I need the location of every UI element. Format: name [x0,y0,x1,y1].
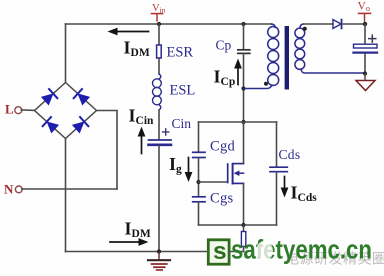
svg-text:s: s [213,238,227,265]
arrow ICds pointing down [281,177,289,198]
capacitor Cgd [193,152,205,157]
capacitor Cgs [193,197,205,202]
label ICin [129,106,155,128]
label IDM bottom [125,219,151,241]
arrow ICp pointing up [234,59,242,85]
label IDM top [124,38,150,60]
node secondary return junction dot [363,71,367,75]
wire source to sense resistor [243,225,245,232]
wire N riser to bridge right vertex [97,111,118,190]
wire diode to Vo node [342,23,366,25]
resistor ESR [157,45,162,58]
wire Cgs to bottom rail [198,202,200,225]
wire sense resistor to bottom rail [243,247,245,252]
watermark logo box [208,238,229,265]
capacitor Cp [238,50,250,54]
wire N horizontal run [22,188,117,190]
svg-text:L: L [5,102,14,117]
node drain rail junction dot [241,120,245,124]
label Vin [152,3,166,21]
terminal N circle [15,186,22,193]
wire stub to output ground [364,74,366,81]
svg-text:ICds: ICds [291,183,318,205]
transformer core bar [285,26,289,90]
ground output (triangle) [356,81,375,91]
wire Cin to bottom rail [158,146,160,252]
transformer primary winding [244,24,279,89]
label Cin [172,116,192,131]
wire ESR to ESL [158,58,160,74]
svg-text:ICin: ICin [129,106,155,128]
label ESL [170,83,196,99]
arrow ICin pointing up [138,127,146,154]
wire L terminal to bridge left vertex [21,109,34,112]
diode D2 top-right of bridge [74,89,90,105]
terminal L circle [15,107,22,114]
transistor Q1 MOSFET [228,164,244,184]
svg-text:IDM: IDM [124,38,150,60]
transformer primary polarity dot [264,82,268,86]
watermark white cloud [256,241,273,261]
capacitor Cds [270,167,287,172]
node Vin junction dot [157,22,161,26]
arrow Ig pointing down [185,158,193,183]
svg-text:safetyemc.cn: safetyemc.cn [231,235,372,265]
wire Vin branch upper segment [158,24,160,45]
label L [5,102,14,117]
transformer secondary polarity dot [303,27,307,31]
label Vo [358,1,371,22]
label N [4,182,14,197]
svg-text:ESR: ESR [167,45,194,61]
wire left branch upper (to Cgd) [198,122,200,152]
arrow IDM bottom pointing right [110,238,149,246]
svg-text:Cp: Cp [216,38,232,53]
wire source vertical [243,183,245,225]
node Vo junction dot [363,22,367,26]
bridge rectifier diamond [35,83,97,139]
svg-text:Vo: Vo [358,1,370,14]
label Cgs [210,191,234,207]
node Cp top junction dot [241,22,245,26]
svg-text:Cin: Cin [172,116,192,131]
wire Cp lower to primary-bottom junction [243,54,245,122]
svg-text:Ig: Ig [169,154,182,176]
diode D3 bottom-left of bridge [43,117,59,133]
watermark gray text [285,251,384,267]
svg-text:IDM: IDM [125,219,151,241]
svg-text:Cds: Cds [279,147,301,162]
label Cin plus sign [163,129,169,135]
node bottom ground junction dot [157,249,161,253]
wire output cap to secondary return [364,54,366,74]
wire Cp branch upper [243,24,245,49]
svg-text:Cgd: Cgd [210,139,236,155]
transformer secondary winding [295,24,365,73]
label Cgd [210,139,236,155]
wire Vo node down to output cap [364,24,366,44]
wire Cds to bottom rail [276,172,278,225]
label Cds [279,147,301,162]
diode output rectifier [333,20,342,29]
watermark safetyemc.cn [231,235,372,265]
label ICp [214,67,236,89]
svg-text:N: N [4,182,14,197]
ground main (hatched) [148,252,170,271]
node source junction dot [241,223,245,227]
arrow IDM top pointing left [108,28,149,36]
diode D4 bottom-right of bridge [72,117,88,133]
wire gate lead [199,181,228,183]
wire secondary top lead to diode [304,23,334,25]
label Ig [169,154,182,176]
label ICds [291,183,318,205]
svg-text:ESL: ESL [170,83,196,99]
svg-text:Cgs: Cgs [210,191,234,207]
wire top rail from corner to transformer primary [66,23,272,25]
wire bottom rail [66,251,244,253]
node primary bottom junction dot [241,86,245,90]
capacitor Co output electrolytic [354,44,378,52]
label ESR [167,45,194,61]
label Cp [216,38,232,53]
wire left drop from corner to bridge top vertex [65,24,67,83]
svg-text:Vin: Vin [152,3,166,15]
diode D1 top-left of bridge [41,89,57,105]
wire Cgd to gate node [198,158,200,196]
svg-text:ICp: ICp [214,67,236,89]
wire right branch upper (to Cds) [276,122,278,167]
capacitor Cin [149,140,172,145]
wire bridge bottom drop [65,139,67,252]
label output cap plus sign [369,35,376,42]
wire drain vertical [243,122,245,164]
resistor sense [241,232,245,247]
node gate junction dot [196,180,200,184]
wire parasitic box bottom rail [199,224,277,226]
wire ESL to Cin [158,110,160,140]
wire parasitic box top rail [199,121,277,123]
inductor ESL [153,74,162,110]
